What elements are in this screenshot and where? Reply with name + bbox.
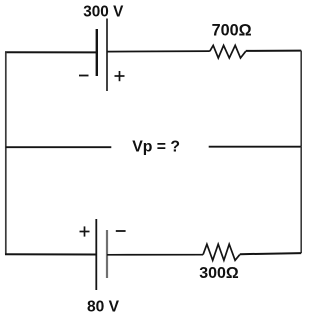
wire middle-left segment <box>6 146 112 148</box>
battery B1 minus sign <box>79 75 89 77</box>
wire resistor R2 to bottom-right corner <box>240 253 301 254</box>
battery B1 short plate (negative) <box>96 29 98 76</box>
wire right edge upper <box>300 51 302 147</box>
wire battery B2 to resistor R2 <box>107 254 203 256</box>
battery B2 plus sign <box>80 226 90 236</box>
wire left edge <box>5 52 7 254</box>
battery B2 long plate (positive) <box>95 219 97 290</box>
battery B1 plus sign <box>115 71 125 81</box>
wire top-left segment <box>5 51 97 53</box>
wire right edge lower <box>300 147 302 253</box>
svg-text:700Ω: 700Ω <box>212 21 252 39</box>
wire bottom-left segment <box>5 253 96 255</box>
wire battery B1 to resistor R1 <box>107 50 210 53</box>
svg-text:Vp = ?: Vp = ? <box>132 139 180 156</box>
wire resistor R1 to top-right corner <box>246 50 301 52</box>
svg-text:300 V: 300 V <box>83 4 124 21</box>
battery B2 minus sign <box>116 230 126 232</box>
resistor R2 zigzag <box>203 244 240 260</box>
svg-text:80 V: 80 V <box>87 299 120 316</box>
wire middle-right segment <box>209 146 302 148</box>
battery B1 long plate (positive) <box>106 19 108 92</box>
svg-text:300Ω: 300Ω <box>199 265 239 282</box>
battery B2 short plate (negative) <box>106 230 108 278</box>
resistor R1 zigzag <box>210 45 246 58</box>
